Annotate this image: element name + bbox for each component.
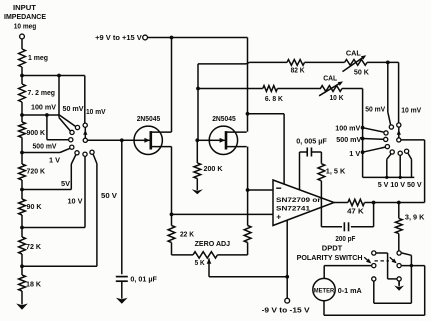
wire Q2 drain riser (247, 38, 249, 132)
crossover blob at d wire (410, 264, 413, 267)
wire 5V-10V-50V bus (363, 176, 415, 178)
svg-text:10 meg: 10 meg (14, 21, 37, 30)
resistor 720 K (19, 164, 26, 180)
contact 500 mV (deck1) (70, 145, 74, 149)
node D 1V tap dot (20, 188, 24, 192)
wire node A horizontal to 10mV branch (22, 75, 85, 77)
wire 5V tap (22, 227, 85, 229)
contact 500 mV (deck2) (384, 137, 388, 141)
wire 6.8K line (198, 88, 263, 90)
contact 10 V (deck2) (398, 151, 402, 155)
wire 500mV tap (22, 152, 60, 154)
polarity switch contact b (397, 251, 401, 255)
svg-text:500 mV: 500 mV (336, 135, 361, 144)
wire op-amp V- pin (286, 220, 288, 298)
wire 22K to zero-adj pot (171, 243, 173, 255)
svg-text:0, 01 µF: 0, 01 µF (130, 275, 157, 284)
wire 1meg to node A (21, 67, 23, 76)
node C 500mV tap dot (20, 151, 24, 155)
wire 1V tap (22, 189, 71, 191)
resistor 3.9 K (398, 203, 400, 219)
wire CAL 50K output (367, 61, 399, 63)
junction dot 200pF branch (372, 201, 376, 205)
title INPUT IMPEDANCE 10 meg (4, 3, 46, 30)
resistor 1 meg (19, 49, 26, 67)
wire to 100mV contact deck2 (363, 128, 384, 133)
svg-text:72 K: 72 K (26, 242, 42, 251)
svg-text:720 K: 720 K (27, 167, 46, 176)
svg-text:18 K: 18 K (26, 280, 42, 289)
svg-text:0-1 mA: 0-1 mA (338, 286, 362, 295)
resistor 47 K (348, 199, 365, 205)
svg-text:CAL: CAL (323, 74, 338, 83)
svg-text:2N5045: 2N5045 (137, 114, 161, 123)
svg-text:7. 2 meg: 7. 2 meg (28, 88, 56, 97)
svg-text:1, 5 K: 1, 5 K (326, 167, 346, 176)
svg-text:METER: METER (314, 287, 335, 294)
resistor 22 K (168, 226, 175, 243)
capacitor 0.005 uF (300, 151, 308, 153)
wire 82K to CAL 50K (305, 61, 345, 63)
svg-text:-9 V to -15 V: -9 V to -15 V (262, 305, 310, 314)
svg-text:47 K: 47 K (347, 207, 364, 216)
svg-text:50 K: 50 K (354, 68, 370, 77)
svg-text:82 K: 82 K (291, 66, 306, 75)
range switch deck1 pole (83, 138, 87, 142)
potentiometer ZERO ADJ 5K (193, 252, 218, 258)
-9V terminal (285, 298, 290, 303)
svg-text:5 V 10 V 50 V: 5 V 10 V 50 V (378, 180, 422, 189)
junction dot 500mV tap (361, 137, 365, 141)
wire 0.01uF branch vertical (121, 140, 123, 274)
svg-text:+: + (276, 213, 281, 222)
svg-text:IMPEDANCE: IMPEDANCE (4, 12, 46, 21)
resistor 72 K (19, 237, 26, 254)
wire to 500mV contact deck2 (363, 138, 384, 141)
wire Q1 drain riser (171, 38, 173, 133)
resistor 90 K (19, 199, 26, 215)
contact 5 V (deck1) (83, 152, 87, 156)
node B 100mV tap dot (20, 113, 24, 117)
wire 1.5K down to 200pF (320, 181, 322, 227)
svg-text:100 mV: 100 mV (31, 103, 56, 112)
wire to 1V contact deck2 (363, 147, 386, 152)
contact 1 V (deck2) (385, 145, 389, 149)
wire inverting input from Q2 source (246, 188, 250, 192)
capacitor 0.01 uF (116, 276, 128, 278)
wiper arm left with arrow (364, 257, 370, 262)
resistor 6.8 K (263, 86, 278, 92)
wire 82K line (249, 61, 287, 63)
contact 100 mV (deck1) (70, 130, 74, 134)
wire 50mV branch vertical (58, 76, 60, 118)
junction dot 3.9K branch (397, 201, 401, 205)
junction dot 0.01uF branch (120, 138, 124, 142)
svg-text:5 K: 5 K (195, 258, 206, 267)
wire CAL 10K output (342, 88, 363, 90)
polarity switch contact d (pole) (397, 264, 401, 268)
input terminal J1 (20, 34, 25, 39)
svg-text:5V: 5V (61, 179, 70, 188)
contact 50 V (deck2) (405, 149, 409, 153)
wire diagonal to 50mV contact (59, 115, 76, 127)
junction dot 6.8K line (196, 87, 200, 91)
svg-text:1 V: 1 V (349, 149, 360, 158)
resistor 900 K (19, 122, 26, 138)
wire diagonal to 100mV contact (59, 118, 71, 132)
svg-text:6. 8 K: 6. 8 K (265, 94, 284, 103)
svg-text:SN72741: SN72741 (276, 205, 310, 212)
wire noninverting input (172, 213, 274, 215)
junction dot Q1 drain riser (170, 36, 174, 40)
wire d to meter negative (402, 265, 425, 267)
wire comp pin 2 (299, 152, 301, 190)
junction dot Q2 gate (195, 138, 199, 142)
junction dot 50mV branch (57, 74, 61, 78)
junction dot on 100mV tap (45, 113, 49, 117)
wire +V rail (148, 37, 248, 39)
wire 50V tap (22, 265, 97, 267)
junction dot on V- rail (285, 275, 289, 279)
wire 10mV branch vertical (84, 76, 86, 124)
node F 10V tap dot (20, 264, 24, 268)
wire 200K to ground (196, 179, 198, 185)
svg-text:ZERO ADJ: ZERO ADJ (195, 239, 231, 248)
crossover jog at Q2 drain riser (246, 62, 249, 64)
svg-text:POLARITY SWITCH: POLARITY SWITCH (297, 253, 363, 262)
svg-text:200 pF: 200 pF (335, 234, 356, 243)
wire f to ground (398, 281, 400, 285)
svg-text:200 K: 200 K (204, 164, 224, 173)
wire input to R 1meg (21, 39, 23, 49)
wire 82K line left segment (198, 63, 246, 65)
svg-text:10 mV: 10 mV (401, 106, 421, 115)
mechanical link dashed (375, 260, 390, 262)
svg-text:10 V: 10 V (68, 197, 83, 206)
resistor 82 K (287, 60, 305, 66)
wire cap to ground (121, 281, 123, 284)
polarity switch contact c (pole) (372, 264, 376, 268)
contact C (deck1 left) (69, 138, 73, 142)
svg-text:3, 9 K: 3, 9 K (405, 212, 425, 221)
ground below 18K (21, 295, 23, 305)
ground below polarity switch (398, 281, 400, 286)
wire op-amp output (334, 202, 348, 204)
svg-text:DPDT: DPDT (322, 243, 343, 252)
meter M1 0-1 mA (313, 278, 335, 300)
wire cap to 1.5K (320, 152, 322, 164)
potentiometer CAL 50K (345, 60, 368, 66)
wire a to f contact (376, 252, 387, 254)
resistor 18 K (19, 275, 26, 291)
+9V terminal (143, 35, 148, 40)
wire 50mV feedback branch (387, 62, 389, 112)
wire b to e cross-connection (401, 253, 411, 255)
wire 10mV feedback branch (398, 62, 400, 123)
svg-text:INPUT: INPUT (13, 3, 36, 12)
polarity switch contact f (397, 277, 401, 281)
svg-text:10 mV: 10 mV (86, 107, 106, 116)
wire Q2 source down (247, 147, 249, 226)
svg-text:90 K: 90 K (27, 202, 43, 211)
polarity switch contact e (372, 277, 376, 281)
zero adj wiper (207, 258, 212, 263)
wire wiper to negative rail (209, 276, 287, 278)
potentiometer CAL 10K (320, 86, 342, 92)
junction dot 50mV feedback branch (386, 61, 390, 65)
wiper arm right with arrow (390, 257, 396, 262)
wire deck2 tap bus vertical (362, 89, 364, 178)
contact 10 mV (deck2) (397, 123, 401, 127)
capacitor 200 pF (343, 222, 345, 231)
wire comp branch (248, 113, 285, 115)
junction dot comp network branch (246, 112, 250, 116)
junction dot noninverting line (170, 213, 174, 217)
svg-text:50 mV: 50 mV (365, 105, 385, 114)
svg-text:10 K: 10 K (330, 93, 345, 102)
contact 1 V (deck1) (75, 151, 79, 155)
wire from tap dot down to 500mV-row contact (46, 115, 48, 140)
svg-text:500 mV: 500 mV (33, 142, 57, 151)
wire deck2 pole to output node (401, 139, 425, 141)
svg-text:22 K: 22 K (180, 230, 195, 239)
contact 100 mV (deck2) (384, 131, 388, 135)
wire 200pF feedback (373, 203, 375, 227)
wire to zero adj right end (247, 243, 249, 255)
wire output node (365, 202, 425, 204)
wire c to meter positive (324, 265, 371, 267)
wire Q1 source down (171, 147, 173, 226)
wire 100mV tap horizontal (22, 114, 59, 116)
contact 5 V (deck2) (390, 150, 394, 154)
svg-text:900 K: 900 K (27, 128, 46, 137)
node A junction dot (20, 74, 24, 78)
wire deck1 pole to Q1 gate (87, 139, 134, 141)
svg-text:2N5045: 2N5045 (212, 114, 236, 123)
svg-text:50 mV: 50 mV (63, 104, 84, 113)
node E 5V tap dot (20, 226, 24, 230)
svg-text:1 meg: 1 meg (28, 53, 48, 62)
svg-text:100 mV: 100 mV (335, 124, 360, 133)
svg-text:1 V: 1 V (49, 156, 60, 165)
contact 50 V (deck1) (90, 150, 94, 154)
junction dot 100mV tap (361, 126, 365, 130)
op-amp U1 SN72709/SN72741 (273, 180, 334, 226)
wiper arm deck1 pole to 10mV (84, 127, 86, 138)
svg-text:0, 005 µF: 0, 005 µF (296, 137, 327, 146)
polarity switch contact a (372, 251, 376, 255)
resistor Q2 source 22K (244, 226, 251, 243)
ground below 0.01uF (121, 283, 123, 299)
contact 50 mV (deck2) (389, 125, 393, 129)
resistor 1.5 K (318, 164, 325, 181)
contact 10 mV (deck1) (83, 123, 87, 127)
svg-text:CAL: CAL (346, 48, 362, 57)
resistor 200 K (196, 140, 198, 163)
svg-text:+9 V to +15 V: +9 V to +15 V (95, 33, 142, 42)
wire 3.9K to polarity switch (398, 234, 400, 251)
wiper arm deck2 pole to 10mV (398, 127, 400, 138)
ground below 200K (196, 185, 198, 191)
svg-text:SN72709 or: SN72709 or (276, 197, 321, 204)
wire 6.8K to CAL 10K (277, 88, 321, 90)
junction dot 1V tap (361, 150, 365, 154)
resistor 7.2 meg (19, 84, 26, 102)
wire Q2 gate (197, 139, 212, 141)
wire Q2 gate riser (197, 64, 199, 141)
svg-text:50 V: 50 V (101, 191, 117, 200)
contact 50 mV (deck1) (75, 125, 79, 129)
range switch deck2 pole (397, 138, 401, 142)
